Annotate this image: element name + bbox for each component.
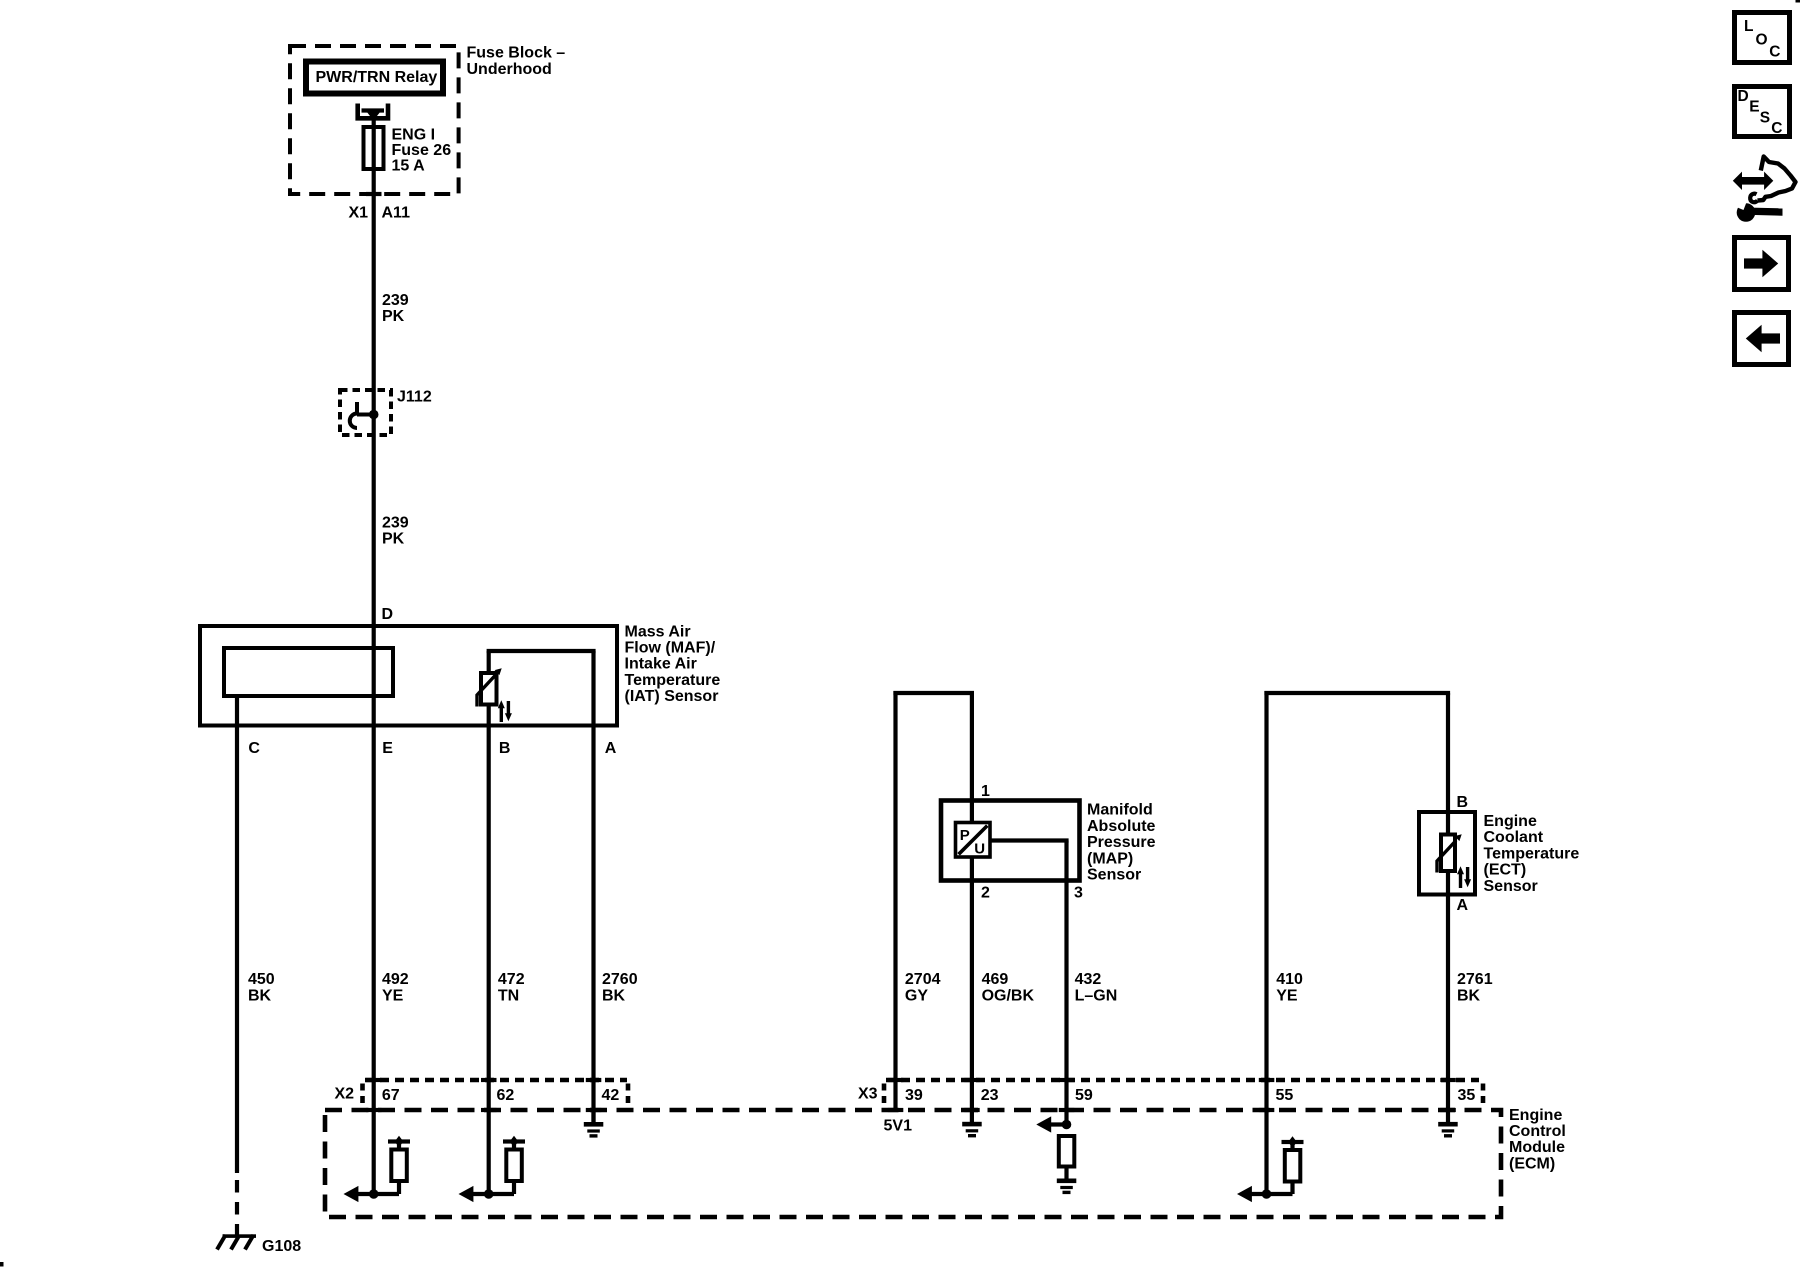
fuse block - underhood dashed box — [290, 46, 459, 194]
net label 5V1 — [884, 1117, 913, 1134]
svg-text:P: P — [960, 827, 970, 844]
svg-text:Fuse Block –: Fuse Block – — [467, 45, 566, 62]
wire label 432 L-GN — [1075, 971, 1118, 1004]
svg-text:450: 450 — [248, 971, 275, 988]
ECM internal node pin 59: junction, arrow, resistor, ground — [1036, 1116, 1076, 1194]
wire label 239 PK (lower) — [382, 515, 409, 548]
ECM dashed box — [325, 1110, 1501, 1217]
svg-text:2760: 2760 — [602, 971, 638, 988]
ground label G108 — [262, 1238, 301, 1255]
svg-text:Manifold: Manifold — [1087, 802, 1153, 819]
svg-text:62: 62 — [497, 1087, 515, 1104]
ECM boundary ticks — [366, 1108, 1456, 1112]
svg-text:Temperature: Temperature — [625, 672, 721, 689]
pin label 1 (MAP) — [981, 783, 990, 800]
svg-text:Sensor: Sensor — [1484, 878, 1538, 895]
svg-text:OG/BK: OG/BK — [982, 987, 1035, 1004]
svg-text:Underhood: Underhood — [467, 61, 552, 78]
svg-text:D: D — [1738, 88, 1749, 105]
svg-text:(MAP): (MAP) — [1087, 850, 1133, 867]
svg-text:Control: Control — [1509, 1123, 1566, 1140]
wire 239 PK from relay through fuse to X1 — [372, 111, 376, 195]
svg-text:BK: BK — [248, 987, 272, 1004]
svg-text:Intake Air: Intake Air — [625, 656, 697, 673]
svg-text:PK: PK — [382, 531, 405, 548]
wire label 2760 BK — [602, 971, 638, 1004]
svg-text:Mass Air: Mass Air — [625, 623, 691, 640]
svg-text:E: E — [1749, 99, 1759, 116]
svg-text:Coolant: Coolant — [1484, 829, 1544, 846]
wire IAT thermistor bottom to pin B — [487, 703, 491, 726]
pin label 2 (MAP) — [981, 885, 990, 902]
connector label X1 / A11 — [349, 205, 411, 222]
svg-text:(ECM): (ECM) — [1509, 1155, 1555, 1172]
connector X3 dotted strip — [884, 1080, 1483, 1104]
svg-text:X3: X3 — [858, 1085, 878, 1102]
wire label 450 BK — [248, 971, 275, 1004]
svg-text:Engine: Engine — [1509, 1107, 1562, 1124]
pin label 3 (MAP) — [1074, 885, 1083, 902]
svg-text:Temperature: Temperature — [1484, 845, 1580, 862]
pin label A (ECT) — [1457, 897, 1469, 914]
relay output terminal (female cup) — [358, 104, 388, 119]
svg-text:Absolute: Absolute — [1087, 818, 1156, 835]
wire IAT loop (thermistor top to pin A) — [487, 651, 596, 726]
icon diagnostic tool (double arrow + outline + wrench) — [1733, 157, 1796, 222]
svg-text:YE: YE — [382, 987, 404, 1004]
svg-text:23: 23 — [981, 1087, 999, 1104]
svg-text:42: 42 — [602, 1087, 620, 1104]
svg-text:410: 410 — [1276, 971, 1303, 988]
svg-text:59: 59 — [1075, 1087, 1093, 1104]
fuse label — [392, 127, 452, 175]
relay K (PWR/TRN Relay) — [306, 62, 443, 94]
splice label J112 — [397, 389, 432, 406]
svg-text:PK: PK — [382, 308, 405, 325]
fuse F (ENG I Fuse 26 15 A) — [364, 127, 384, 169]
svg-text:A: A — [1457, 897, 1469, 914]
svg-text:C: C — [1771, 120, 1782, 137]
svg-text:J112: J112 — [397, 389, 432, 406]
svg-text:BK: BK — [1457, 987, 1481, 1004]
pin labels 67 62 42 — [382, 1087, 619, 1104]
wire label 2761 BK — [1457, 971, 1493, 1004]
svg-text:Sensor: Sensor — [1087, 867, 1141, 884]
svg-text:O: O — [1756, 32, 1768, 49]
fuse block label — [467, 45, 566, 78]
svg-text:Module: Module — [1509, 1139, 1565, 1156]
svg-text:U: U — [974, 841, 985, 858]
wire label 469 OG/BK — [982, 971, 1035, 1004]
connector label X3 — [858, 1085, 878, 1102]
svg-text:(IAT) Sensor: (IAT) Sensor — [625, 688, 719, 705]
svg-text:GY: GY — [905, 987, 928, 1004]
svg-text:L–GN: L–GN — [1075, 987, 1118, 1004]
wire MAP pin 3 (P/U right, down) — [990, 841, 1069, 1125]
icon next-page button (right arrow) — [1735, 238, 1789, 290]
MAF sensor label — [625, 623, 721, 705]
svg-text:67: 67 — [382, 1087, 400, 1104]
MAF internal module rect — [224, 648, 393, 696]
wire MAP pin 2 (P/U bottom down) — [970, 857, 974, 1122]
svg-text:1: 1 — [981, 783, 990, 800]
connector label X2 — [335, 1085, 355, 1102]
ECT sensor label — [1484, 813, 1580, 895]
wire 2704 GY (ECM 39 5V ref to MAP pin 1) — [893, 691, 974, 1110]
pin label D — [382, 606, 394, 623]
svg-text:239: 239 — [382, 515, 409, 532]
svg-text:239: 239 — [382, 292, 409, 309]
svg-text:3: 3 — [1074, 885, 1083, 902]
svg-text:Flow (MAF)/: Flow (MAF)/ — [625, 640, 716, 657]
ECM internal node pin 62: junction, arrow, pull-up resistor R — [459, 1136, 526, 1202]
thermistor RT1 (IAT) — [477, 668, 502, 706]
ECM internal node pin 67: junction, arrow, pull-up resistor R — [344, 1136, 411, 1202]
icon prev-page button (left arrow) — [1735, 313, 1789, 365]
wire 472 TN (MAF pin B to ECM 62) — [487, 726, 491, 1195]
svg-text:2: 2 — [981, 885, 990, 902]
svg-text:55: 55 — [1276, 1087, 1294, 1104]
svg-text:(ECT): (ECT) — [1484, 862, 1527, 879]
MAF/IAT sensor box — [200, 626, 617, 726]
pin label B (ECT) — [1457, 794, 1469, 811]
pin labels 39 23 59 55 35 — [905, 1087, 1475, 1104]
svg-text:BK: BK — [602, 987, 626, 1004]
svg-text:15 A: 15 A — [392, 157, 426, 174]
svg-text:YE: YE — [1276, 987, 1298, 1004]
svg-text:2761: 2761 — [1457, 971, 1493, 988]
svg-text:E: E — [382, 740, 393, 757]
icon LOC button — [1735, 13, 1790, 63]
thermistor IAT up/down arrows — [498, 700, 512, 722]
svg-text:39: 39 — [905, 1087, 923, 1104]
ECM ground at pin 42 — [584, 1110, 604, 1138]
wire label 239 PK (upper) — [382, 292, 409, 325]
ECT sensor box — [1419, 812, 1475, 895]
svg-text:D: D — [382, 606, 394, 623]
MAP sensor label — [1087, 802, 1156, 884]
wire label 410 YE — [1276, 971, 1303, 1004]
svg-text:B: B — [499, 740, 511, 757]
ECM ground at pin 23 — [962, 1122, 982, 1138]
wire 2761 BK (ECT pin A to ECM 35 ground) — [1446, 871, 1450, 1122]
chassis ground G108 — [217, 1234, 256, 1249]
wire MAF pin C internal — [235, 696, 239, 726]
icon DESC button — [1735, 87, 1790, 138]
MAP transducer P/U symbol — [956, 823, 991, 858]
svg-text:2704: 2704 — [905, 971, 941, 988]
page artifact dot bottom-left — [0, 1262, 4, 1267]
ECM label — [1509, 1107, 1566, 1173]
ECM ground at pin 35 — [1438, 1122, 1458, 1138]
MAP sensor box — [941, 801, 1080, 881]
svg-text:469: 469 — [982, 971, 1009, 988]
connector X2 dotted strip — [363, 1080, 629, 1104]
wire 239 PK vertical (X1 to MAF pin D) — [372, 194, 376, 626]
page artifact mark top-right — [1796, 0, 1800, 3]
svg-text:A: A — [605, 740, 617, 757]
svg-text:L: L — [1744, 18, 1753, 35]
connector ticks at X3 row — [888, 1078, 1456, 1082]
wire 2760 BK (MAF pin A to ECM 42 ground) — [591, 726, 595, 1123]
svg-text:492: 492 — [382, 971, 409, 988]
pin labels C E B A — [248, 740, 616, 757]
svg-text:C: C — [248, 740, 260, 757]
wire 450 BK dashed continuation to G108 — [235, 1170, 239, 1237]
ECM internal node pin 55: junction, arrow, pull-up resistor R — [1237, 1136, 1304, 1202]
svg-text:A11: A11 — [382, 205, 411, 222]
wire label 492 YE — [382, 971, 409, 1004]
wire 450 BK (MAF pin C down, solid) — [235, 726, 239, 1174]
wire MAF internal vertical D-E — [372, 626, 376, 726]
relay output terminal (male pin with down arrow) — [362, 111, 385, 121]
svg-text:432: 432 — [1075, 971, 1102, 988]
svg-text:5V1: 5V1 — [884, 1117, 913, 1134]
splice J112 symbol — [350, 402, 379, 428]
svg-text:X1: X1 — [349, 205, 369, 222]
svg-text:Engine: Engine — [1484, 813, 1537, 830]
svg-text:X2: X2 — [335, 1085, 355, 1102]
svg-text:C: C — [1769, 43, 1780, 60]
svg-text:35: 35 — [1458, 1087, 1476, 1104]
svg-text:G108: G108 — [262, 1238, 301, 1255]
svg-text:PWR/TRN Relay: PWR/TRN Relay — [316, 69, 438, 86]
wire 492 YE (MAF pin E to ECM 67) — [372, 726, 376, 1195]
wire label 2704 GY — [905, 971, 941, 1004]
thermistor RT2 (ECT) — [1437, 834, 1462, 872]
connector ticks at X2 row — [366, 1078, 601, 1082]
svg-text:B: B — [1457, 794, 1469, 811]
wire label 472 TN — [498, 971, 525, 1004]
svg-text:Pressure: Pressure — [1087, 834, 1156, 851]
splice J112 dashed box — [340, 390, 391, 435]
svg-text:TN: TN — [498, 987, 519, 1004]
thermistor ECT up/down arrows — [1457, 866, 1471, 888]
svg-text:S: S — [1760, 109, 1770, 126]
connector tick X1 A11 — [366, 192, 382, 196]
wire 410 YE (ECM 55 to ECT pin B) — [1264, 691, 1450, 1194]
svg-text:472: 472 — [498, 971, 525, 988]
